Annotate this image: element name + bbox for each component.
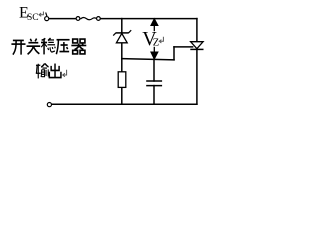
svg-text:Z: Z — [153, 37, 159, 48]
svg-text:SC: SC — [27, 13, 39, 23]
